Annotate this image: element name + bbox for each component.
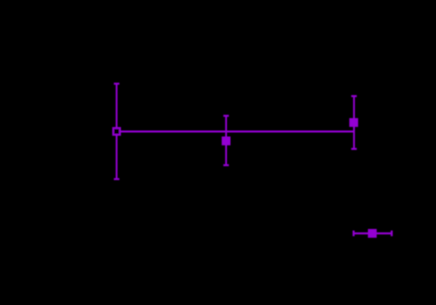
series line [117, 130, 355, 132]
legend left cap [353, 231, 355, 237]
legend sample line [354, 232, 392, 234]
marker P3 filled square [349, 118, 358, 127]
errorbar P3 top cap [351, 95, 357, 97]
errorbar P3 bottom cap [351, 148, 357, 150]
errorbar P1 top cap [114, 83, 120, 85]
errorbar P1 vertical [116, 84, 118, 179]
errorbar P1 bottom cap [114, 178, 120, 180]
marker P2 filled square [222, 137, 231, 146]
marker P1 open square [113, 128, 120, 135]
errorbar P2 top cap [223, 115, 229, 117]
legend right cap [391, 231, 393, 237]
errorbar P2 vertical [225, 116, 227, 165]
errorbar P3 vertical [353, 96, 355, 149]
legend marker filled square [368, 229, 377, 238]
errorbar P2 bottom cap [223, 164, 229, 166]
